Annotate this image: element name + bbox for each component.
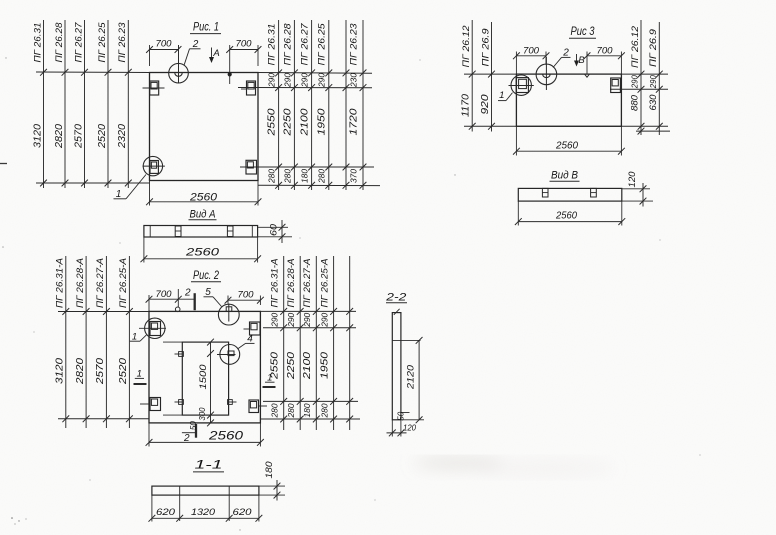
svg-text:ПГ 26.31: ПГ 26.31: [32, 23, 43, 63]
leader and label 2 Fig1: [184, 39, 200, 65]
loop notch left view A: [175, 226, 181, 237]
svg-text:2570: 2570: [73, 124, 84, 150]
stray scan mark left margin: [0, 163, 7, 165]
dim 60 thickness view A: [258, 220, 292, 243]
svg-text:290: 290: [648, 75, 658, 89]
lifting loop top-right Fig2: [244, 322, 261, 335]
svg-text:290: 290: [270, 313, 280, 328]
mark labels right block Fig2: [270, 259, 331, 308]
lifting loop bottom-right Fig1: [241, 160, 257, 174]
section mark 1 left Fig2: [134, 369, 147, 384]
svg-text:Вид В: Вид В: [551, 169, 578, 181]
top 290 dims right block Fig2: [270, 313, 330, 328]
svg-text:2250: 2250: [283, 108, 294, 137]
top boundary extension right block Fig2: [260, 310, 356, 312]
svg-text:50: 50: [189, 421, 198, 431]
lower extension line section 2-2: [401, 419, 424, 421]
svg-text:2120: 2120: [405, 364, 416, 390]
dim row 620-1320-620 section 1-1: [149, 495, 263, 522]
svg-text:280: 280: [319, 403, 329, 418]
top 290 dims right block Fig3: [630, 75, 658, 89]
svg-text:630: 630: [648, 94, 659, 111]
svg-text:700: 700: [156, 289, 173, 300]
open ring node on top edge Fig2: [175, 307, 180, 312]
bottom boundary line left block Fig2: [58, 418, 149, 420]
svg-text:ПГ 26.9: ПГ 26.9: [648, 28, 659, 67]
panel outline Fig3: [516, 74, 621, 126]
svg-text:ПГ 26.25-А: ПГ 26.25-А: [118, 258, 129, 308]
middle dims right block Fig1: [267, 108, 360, 137]
title Рис.1: [190, 20, 221, 34]
dim 2120 section 2-2: [405, 337, 422, 423]
svg-text:290: 290: [317, 73, 327, 88]
stray speckles bottom-left: [11, 517, 26, 524]
leader and label 2 Fig3: [553, 48, 571, 68]
notch node on top edge Fig3: [585, 74, 590, 77]
svg-text:290: 290: [319, 313, 329, 328]
lifting loop right Fig3: [611, 78, 621, 93]
svg-text:290: 290: [286, 313, 296, 328]
anchor tick opening left upper Fig2: [175, 352, 184, 357]
svg-text:ПГ 26.28: ПГ 26.28: [283, 23, 294, 66]
svg-text:1320: 1320: [191, 507, 216, 518]
horizontal boundary 290-row right block Fig2: [263, 327, 356, 329]
lifting loop bottom-right Fig2: [249, 400, 267, 413]
middle boundary right block Fig3: [610, 88, 668, 90]
dim 700 top-left Fig1: [146, 39, 181, 67]
dim 120 thickness view B: [622, 172, 653, 207]
svg-text:120: 120: [403, 422, 416, 432]
svg-text:ПГ 26.9: ПГ 26.9: [480, 28, 491, 67]
svg-text:ПГ 26.23: ПГ 26.23: [349, 23, 360, 66]
detail circle 4 on opening edge Fig2: [217, 345, 240, 365]
svg-text:290: 290: [630, 75, 640, 89]
panel outline Fig1: [150, 73, 259, 181]
leader and label 1 Fig3: [498, 90, 513, 101]
section mark 2 bottom Fig2: [182, 424, 196, 444]
lifting loop top-right Fig1: [241, 81, 256, 95]
section mark 2 top Fig2: [184, 287, 195, 310]
svg-text:700: 700: [238, 290, 255, 301]
ticks left block Fig3: [469, 71, 495, 130]
svg-text:2: 2: [184, 287, 191, 298]
opening rectangle Fig2: [182, 342, 228, 415]
panel outline Fig2: [149, 311, 260, 423]
detail circle 2 on top edge Fig1: [169, 45, 189, 83]
dim 2560 bottom Fig1: [146, 181, 261, 206]
lifting loop top-left Fig1: [143, 81, 165, 95]
svg-text:700: 700: [236, 39, 253, 50]
ticks left block Fig2: [62, 308, 132, 422]
bar outline section 2-2: [392, 309, 401, 420]
leader and label 5 Fig2: [204, 287, 222, 307]
svg-text:1-1: 1-1: [195, 459, 223, 471]
svg-text:ПГ 26.12: ПГ 26.12: [630, 25, 641, 68]
dim 2560 view A: [141, 237, 262, 263]
height dims left block Fig3: [461, 94, 491, 117]
svg-text:700: 700: [156, 39, 173, 50]
svg-text:280: 280: [270, 403, 280, 418]
mark labels left block Fig2: [55, 258, 130, 308]
anchor tick opening right lower Fig2: [228, 400, 237, 405]
leader and label 1 Fig1: [114, 175, 147, 201]
svg-text:180: 180: [264, 462, 274, 479]
svg-text:2560: 2560: [208, 430, 244, 442]
svg-text:2820: 2820: [75, 357, 86, 385]
svg-text:280: 280: [283, 169, 293, 184]
loop notch left view B: [542, 188, 548, 197]
bottom boundary line Fig3: [464, 125, 668, 127]
chain extension lines right block Fig2: [284, 256, 350, 430]
svg-text:ПГ 26.28: ПГ 26.28: [54, 22, 65, 63]
title section 1-1: [193, 459, 224, 472]
ticks right block Fig1: [275, 70, 366, 189]
dim 2560 bottom Fig3: [513, 126, 625, 155]
svg-text:620: 620: [233, 507, 253, 518]
anchor tick opening left lower Fig2: [175, 400, 184, 405]
svg-text:180: 180: [302, 403, 312, 417]
top 290 dims right block Fig1: [267, 73, 359, 88]
chain extension lines left block Fig1: [44, 20, 129, 188]
loop notch right view A: [227, 226, 233, 237]
svg-text:2-2: 2-2: [385, 291, 406, 303]
svg-text:2250: 2250: [286, 351, 297, 380]
svg-text:2100: 2100: [300, 108, 311, 137]
svg-text:ПГ 26.31-А: ПГ 26.31-А: [270, 259, 281, 308]
bottom dims right block Fig3: [630, 94, 659, 111]
svg-text:ПГ 26.27-А: ПГ 26.27-А: [302, 259, 313, 308]
dim 300 opening Fig2: [197, 407, 207, 420]
svg-text:60: 60: [268, 224, 278, 236]
mark labels right block Fig3: [630, 25, 659, 68]
bottom boundary right block Fig2: [260, 418, 360, 420]
svg-text:920: 920: [480, 94, 491, 115]
section mark 1 right Fig2: [263, 372, 276, 387]
dot node on top edge Fig1: [228, 72, 232, 84]
bottom boundary right block Fig1: [258, 184, 380, 186]
chain extension lines left block Fig2: [66, 256, 130, 428]
svg-text:1950: 1950: [319, 351, 330, 379]
detail circle 2 on top edge Fig3: [536, 57, 557, 90]
svg-text:2520: 2520: [118, 357, 129, 385]
mark labels left block Fig1: [32, 22, 128, 63]
horizontal boundary lower right block Fig2: [263, 400, 358, 402]
chain extension lines left block Fig3: [472, 20, 491, 132]
svg-text:880: 880: [630, 94, 641, 111]
svg-text:2560: 2560: [185, 246, 221, 258]
mark labels left block Fig3: [461, 25, 491, 68]
svg-text:290: 290: [283, 73, 293, 88]
svg-text:Рис. 2: Рис. 2: [193, 268, 219, 282]
middle dims right block Fig2: [270, 351, 331, 380]
extra bottom boundary right block Fig3: [636, 130, 670, 132]
title Вид А: [189, 208, 217, 220]
svg-text:2820: 2820: [54, 124, 65, 150]
svg-text:ПГ 26.28-А: ПГ 26.28-А: [286, 259, 297, 308]
svg-text:2560: 2560: [555, 210, 577, 222]
svg-text:290: 290: [300, 73, 310, 88]
dim 50 section 2-2: [397, 411, 410, 421]
dim 1500 opening Fig2: [198, 364, 209, 390]
svg-text:120: 120: [627, 172, 637, 188]
horizontal boundary 290-row right block Fig1: [238, 87, 372, 89]
height dims left block Fig1: [32, 124, 128, 150]
loop notch right view B: [591, 188, 597, 197]
svg-text:290: 290: [267, 73, 277, 88]
bottom dims right block Fig2: [270, 403, 330, 418]
svg-text:300: 300: [197, 407, 207, 420]
ticks right block Fig3: [638, 71, 663, 135]
svg-text:280: 280: [317, 169, 327, 184]
lifting loop bottom-left Fig2: [140, 398, 161, 411]
svg-text:2550: 2550: [267, 108, 278, 137]
top boundary extension right block Fig1: [258, 72, 372, 75]
view direction arrow A Fig1: [209, 48, 220, 64]
title Вид В: [550, 169, 580, 181]
lifting loop bottom-left with detail circle Fig1: [143, 156, 165, 175]
title Рис.3: [569, 24, 596, 38]
svg-text:1: 1: [499, 90, 504, 101]
upper extension line section 2-2: [392, 339, 420, 341]
svg-text:1950: 1950: [317, 108, 328, 136]
svg-text:2560: 2560: [189, 192, 218, 204]
svg-text:ПГ 26.25-А: ПГ 26.25-А: [319, 259, 330, 308]
vertical dim line opening Fig2: [163, 339, 214, 427]
lifting loop top-left with detail circle Fig2: [139, 318, 166, 338]
bar outline view A: [144, 226, 258, 238]
svg-text:А: А: [212, 48, 219, 59]
top boundary extension right block Fig3: [621, 73, 668, 75]
view direction arrow B Fig3: [574, 54, 585, 67]
dim 700 top-right Fig1: [226, 39, 261, 73]
dim 50 opening Fig2: [189, 421, 198, 431]
dim 700 top-left Fig2: [146, 289, 195, 311]
svg-text:290: 290: [302, 313, 312, 328]
svg-text:1720: 1720: [349, 108, 360, 136]
stray scan specks: [2, 57, 700, 530]
ticks right block Fig2: [280, 308, 353, 422]
svg-text:ПГ 26.28-А: ПГ 26.28-А: [75, 258, 86, 308]
svg-text:370: 370: [349, 169, 359, 183]
svg-text:ПГ 26.31: ПГ 26.31: [267, 24, 278, 66]
leader and label 1 Fig2: [130, 332, 147, 343]
svg-text:1500: 1500: [198, 364, 209, 390]
title Рис.2: [191, 268, 221, 282]
svg-text:280: 280: [286, 403, 296, 418]
svg-text:Рис 3: Рис 3: [571, 24, 595, 38]
svg-text:Рис. 1: Рис. 1: [193, 20, 219, 34]
svg-text:2520: 2520: [97, 124, 108, 150]
top boundary line left block Fig2: [58, 311, 149, 313]
svg-text:1170: 1170: [461, 94, 472, 117]
bar outline view B: [518, 188, 622, 201]
bar outline section 1-1: [152, 486, 259, 495]
mark labels right block Fig1: [267, 23, 360, 66]
detail circle 5 on top edge Fig2: [218, 304, 239, 326]
svg-text:2560: 2560: [555, 139, 578, 151]
svg-text:ПГ 26.27: ПГ 26.27: [300, 23, 311, 66]
chain extension lines right block Fig3: [641, 20, 659, 135]
dim 700 top-right Fig2: [225, 290, 264, 305]
title section 2-2: [385, 291, 407, 303]
svg-text:3120: 3120: [32, 124, 43, 148]
svg-text:Вид А: Вид А: [190, 208, 216, 220]
svg-text:2570: 2570: [95, 357, 106, 385]
svg-text:700: 700: [523, 45, 540, 56]
bottom dims right block Fig1: [267, 169, 359, 184]
svg-text:620: 620: [156, 507, 176, 518]
horizontal boundary lower right block Fig1: [240, 166, 374, 168]
top boundary line left block Fig3: [464, 73, 516, 75]
chain extension lines right block Fig1: [279, 20, 363, 190]
dim 2560 bottom Fig2: [146, 423, 264, 447]
svg-text:ПГ 26.25: ПГ 26.25: [317, 23, 328, 66]
svg-text:2320: 2320: [117, 124, 128, 150]
svg-text:180: 180: [300, 169, 310, 183]
dim 180 thickness section 1-1: [259, 462, 285, 501]
dim 700 top-right Fig3: [584, 45, 625, 74]
svg-text:2100: 2100: [302, 351, 313, 380]
leader and label 4 Fig2: [238, 334, 255, 349]
svg-text:700: 700: [597, 45, 614, 56]
svg-text:В: В: [578, 55, 585, 66]
dim 2560 view B: [515, 201, 625, 225]
lifting loop left with detail circle Fig3: [509, 75, 534, 95]
dim 700 top-left Fig3: [513, 45, 549, 74]
svg-text:230: 230: [349, 73, 359, 88]
svg-text:50: 50: [397, 411, 406, 421]
svg-text:ПГ 26.25: ПГ 26.25: [97, 22, 108, 63]
svg-text:ПГ 26.23: ПГ 26.23: [117, 22, 128, 63]
height dims left block Fig2: [55, 357, 130, 385]
ticks left block Fig1: [40, 69, 132, 186]
svg-text:ПГ 26.27-А: ПГ 26.27-А: [95, 258, 106, 308]
bottom boundary line left block Fig1: [36, 182, 150, 184]
svg-text:3120: 3120: [55, 357, 66, 384]
svg-text:ПГ 26.12: ПГ 26.12: [461, 25, 472, 68]
svg-text:ПГ 26.31-А: ПГ 26.31-А: [55, 258, 66, 308]
svg-text:280: 280: [267, 169, 277, 184]
top boundary line left block Fig1: [36, 71, 150, 74]
svg-text:ПГ 26.27: ПГ 26.27: [73, 22, 84, 63]
dim 120 bottom section 2-2: [387, 420, 417, 437]
